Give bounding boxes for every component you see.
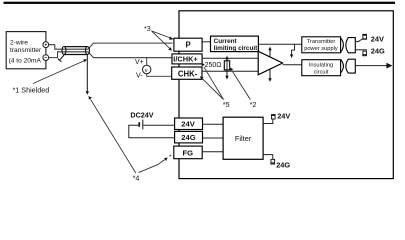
24V terminal symbol (top right) bbox=[362, 34, 367, 39]
transformer T2 (insulating circuit) bbox=[341, 59, 356, 73]
svg-text:I/CHK+: I/CHK+ bbox=[173, 55, 198, 64]
wire: transformer T1 to 24V terminal bbox=[355, 39, 367, 41]
svg-text:*2: *2 bbox=[250, 100, 257, 109]
terminal 24G bbox=[175, 131, 203, 143]
svg-text:V-: V- bbox=[136, 73, 143, 80]
wire: current limiting circuit to transmitter power supply bbox=[258, 43, 303, 45]
internal 24G terminal symbol bbox=[270, 159, 275, 164]
current arrow down at resistor bbox=[225, 71, 228, 79]
wire: filter to internal 24G bbox=[263, 155, 273, 160]
module outline (A/D converter module boundary) bbox=[179, 11, 393, 179]
current limiting circuit box U1 bbox=[211, 36, 259, 52]
leader from *3 to P terminal bbox=[152, 31, 174, 40]
wire: transformer T1 to 24G terminal bbox=[355, 49, 367, 51]
wire: 24V terminal to filter bbox=[203, 123, 224, 125]
svg-text:*3: *3 bbox=[144, 24, 151, 33]
internal 24V label bbox=[277, 112, 290, 121]
svg-text:FG: FG bbox=[183, 148, 194, 157]
leader from *4 to FG terminal (dashed) bbox=[139, 155, 172, 173]
transmitter - terminal circle bbox=[43, 55, 49, 61]
wire: FG terminal to filter bbox=[202, 151, 223, 153]
svg-text:v: v bbox=[145, 68, 148, 74]
svg-text:24V: 24V bbox=[181, 120, 195, 129]
svg-text:24G: 24G bbox=[181, 133, 195, 142]
battery DC24V bbox=[138, 120, 143, 130]
leader from *5 to I/CHK+ internal wire bbox=[201, 63, 223, 100]
leader from *4 to shield drain bbox=[89, 96, 136, 173]
shield drain wire with down arrow bbox=[86, 55, 89, 95]
wire: insulating circuit output with arrow to module edge bbox=[355, 63, 392, 69]
svg-text:24V: 24V bbox=[277, 112, 290, 121]
terminal 24V bbox=[175, 118, 203, 130]
check meter V bbox=[143, 58, 151, 74]
svg-text:2-wire: 2-wire bbox=[10, 40, 28, 47]
leader from *5 to CHK- internal wire bbox=[200, 76, 224, 99]
internal 24V terminal symbol bbox=[271, 114, 276, 119]
V+ label bbox=[135, 59, 144, 66]
current arrow up at op-amp bbox=[268, 47, 271, 57]
shield ground lead with slash bbox=[58, 55, 64, 62]
wire: battery - to 24G terminal bbox=[129, 125, 175, 138]
transmitter power supply box bbox=[302, 37, 341, 53]
internal 24G label bbox=[276, 160, 290, 169]
wire: filter to internal 24V bbox=[263, 119, 273, 123]
wire: CHK- terminal to op-amp input bbox=[202, 70, 258, 72]
leader from *3 to I/CHK+ terminal bbox=[152, 31, 172, 51]
svg-text:Insulating: Insulating bbox=[309, 62, 333, 68]
bent current arrow from power supply line down bbox=[290, 44, 295, 58]
svg-text:Transmitter: Transmitter bbox=[307, 39, 336, 45]
wire: I/CHK+ terminal to op-amp input bbox=[202, 57, 258, 59]
DC24V label bbox=[130, 111, 153, 120]
page top rule bbox=[4, 2, 396, 4]
svg-text:P: P bbox=[186, 41, 191, 50]
wire: P terminal to current limiting circuit bbox=[202, 41, 210, 43]
svg-text:Current: Current bbox=[214, 38, 238, 45]
resistor 250 ohm shunt (vertical) bbox=[224, 60, 229, 72]
svg-text:24V: 24V bbox=[371, 35, 384, 44]
svg-text:circuit: circuit bbox=[314, 69, 329, 75]
svg-text:Filter: Filter bbox=[235, 134, 252, 143]
svg-text:250Ω: 250Ω bbox=[205, 62, 222, 69]
note *1 Shielded label bbox=[13, 86, 50, 95]
V- label bbox=[136, 73, 143, 80]
wire: 24G terminal to filter bbox=[203, 137, 224, 139]
leader from *2 to 250 ohm resistor bbox=[230, 68, 250, 100]
svg-text:24G: 24G bbox=[371, 46, 385, 55]
2-wire transmitter box bbox=[6, 32, 46, 69]
wire: battery + to 24V terminal bbox=[143, 124, 174, 126]
transformer T1 (power supply isolation) bbox=[341, 38, 356, 53]
24G label (top right) bbox=[371, 46, 385, 55]
svg-text:*4: *4 bbox=[133, 174, 140, 183]
svg-text:V+: V+ bbox=[135, 59, 144, 66]
current arrow up at resistor bbox=[225, 56, 228, 60]
shielded twisted pair cable (shield tube) bbox=[62, 47, 90, 55]
24G terminal symbol (top right) bbox=[362, 51, 367, 56]
wire: transmitter + terminal to P terminal bbox=[49, 43, 173, 49]
note *3 label bbox=[144, 24, 151, 33]
svg-text:24G: 24G bbox=[276, 160, 290, 169]
svg-text:CHK-: CHK- bbox=[178, 69, 198, 78]
current arrow down at op-amp bbox=[268, 69, 271, 82]
terminal P bbox=[174, 38, 202, 51]
transmitter + terminal circle bbox=[43, 42, 49, 48]
op-amp U2 bbox=[258, 51, 282, 75]
terminal CHK- bbox=[172, 67, 202, 79]
note *4 label bbox=[133, 174, 140, 183]
svg-text:DC24V: DC24V bbox=[130, 111, 153, 120]
wire: meter V- to CHK- terminal bbox=[147, 74, 172, 77]
svg-text:(4 to 20mA: (4 to 20mA bbox=[9, 58, 42, 65]
wire: transmitter - terminal to I/CHK+ terminal bbox=[49, 52, 173, 58]
svg-text:*1 Shielded: *1 Shielded bbox=[13, 86, 50, 95]
24V label (top right) bbox=[371, 35, 384, 44]
svg-text:limiting circuit: limiting circuit bbox=[214, 45, 259, 52]
terminal FG bbox=[174, 146, 202, 159]
terminal I/CHK+ bbox=[172, 54, 202, 64]
note *2 label bbox=[250, 100, 257, 109]
filter box bbox=[223, 117, 263, 159]
250 ohm value label bbox=[205, 62, 222, 69]
insulating circuit box bbox=[302, 60, 341, 76]
wire: op-amp output to insulating circuit bbox=[283, 64, 302, 66]
svg-text:*5: *5 bbox=[223, 100, 230, 109]
note *5 label bbox=[223, 100, 230, 109]
leader from *1 Shielded to cable shield bbox=[33, 59, 87, 83]
svg-text:power supply: power supply bbox=[304, 46, 338, 52]
svg-text:transmitter: transmitter bbox=[10, 47, 42, 54]
